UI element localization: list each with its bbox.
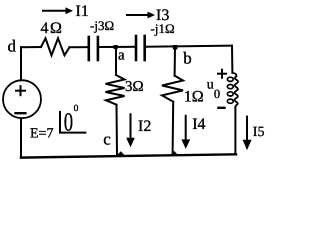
voltage source E circle [3, 80, 41, 118]
junction dot on rail below 1ohm [170, 151, 178, 155]
svg-text:I5: I5 [253, 125, 265, 140]
inductor loop turn 2 [227, 85, 233, 89]
svg-text:I4: I4 [192, 116, 205, 133]
svg-text:d: d [8, 37, 17, 56]
plus sign of u0 [218, 70, 226, 78]
svg-text:b: b [183, 49, 192, 68]
inductor loop turn 3 [227, 92, 233, 96]
wire right corner down to inductor [231, 46, 233, 73]
node a junction dot [114, 45, 118, 49]
angle symbol of E phasor [60, 112, 85, 133]
wire d corner down to source [20, 47, 22, 80]
resistor 1 ohm zigzag [162, 76, 183, 102]
svg-text:4Ω: 4Ω [41, 20, 64, 37]
inductor loop turn 1 [227, 77, 233, 81]
wire inductor to bottom rail [234, 107, 236, 154]
wire resistor to capacitor C1 [70, 46, 88, 48]
svg-text:c: c [103, 129, 111, 148]
wire d corner to resistor [21, 46, 41, 48]
svg-text:a: a [118, 47, 125, 63]
svg-text:E=7: E=7 [30, 127, 53, 142]
svg-text:1Ω: 1Ω [184, 89, 204, 106]
plus sign in source [16, 86, 25, 95]
node b junction dot [173, 45, 178, 49]
capacitor C2 -j1 plates [136, 36, 145, 60]
wire C2 to node b to right corner [146, 46, 232, 47]
svg-text:0: 0 [74, 104, 79, 114]
wire 3ohm to bottom rail [116, 105, 119, 155]
current arrow I4 [181, 116, 190, 149]
svg-text:I2: I2 [138, 118, 151, 135]
svg-text:3Ω: 3Ω [125, 79, 144, 95]
svg-text:-j3Ω: -j3Ω [90, 18, 114, 33]
wire 1ohm to bottom rail [172, 102, 175, 155]
resistor R 4ohm zigzag [41, 38, 70, 55]
wire source down to bottom rail [20, 118, 22, 157]
svg-text:I1: I1 [76, 3, 89, 20]
capacitor C1 -j3 plates [89, 37, 98, 60]
wire node b down [174, 47, 176, 76]
svg-text:I3: I3 [156, 7, 169, 24]
svg-text:0: 0 [214, 87, 220, 101]
minus sign in source [16, 112, 26, 114]
svg-text:0: 0 [64, 108, 73, 137]
bottom rail wire c [21, 154, 236, 157]
current arrow I2 [126, 114, 135, 147]
resistor 3 ohm zigzag [106, 75, 125, 105]
junction dot on rail below 3ohm [117, 151, 125, 155]
minus sign of u0 [219, 107, 225, 109]
wire C1 to node a to capacitor C2 [99, 46, 135, 48]
current arrow I1 [43, 7, 73, 14]
wire node a down [115, 47, 117, 75]
svg-text:u: u [207, 77, 214, 92]
inductor L coil spine [232, 73, 238, 107]
current arrow I3 [127, 12, 155, 19]
current arrow I5 [243, 117, 252, 151]
inductor loop turn 4 [227, 99, 233, 103]
